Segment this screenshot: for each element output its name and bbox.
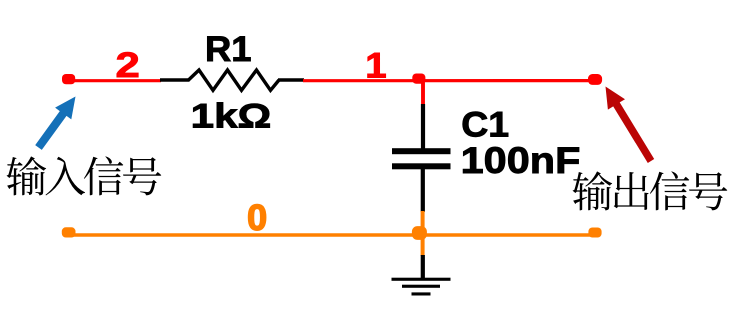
svg-text:1kΩ: 1kΩ [191,97,272,135]
svg-text:100nF: 100nF [461,140,581,181]
node: ground net junction dot [412,226,427,240]
node: left ground terminal dot [62,227,76,237]
svg-text:0: 0 [247,197,267,238]
wire: red segment from resistor through node 1 to output terminal [303,79,591,82]
wire: black lead right of resistor [278,78,304,81]
label 输入信号 (input signal) [7,156,162,195]
ground bar 2 [402,285,440,288]
node: junction dot at node 1 [412,74,425,84]
wire: black lead left of resistor [160,78,190,81]
output arrow (dark red) [606,87,655,164]
wire: black capacitor top lead [421,104,425,149]
label 输出信号 (output signal) [573,171,728,210]
input arrow (blue) [35,97,75,150]
ground bar 1 [392,278,451,281]
node: input terminal dot (net 2) [62,74,75,84]
wire: black lead to ground [421,255,425,279]
wire: orange segment through ground-net junction [421,211,425,256]
resistor R1 [189,70,280,90]
node: right ground terminal dot [588,228,601,238]
ground bar 3 [412,292,431,295]
wire: black capacitor bottom lead [421,169,425,212]
wire: orange ground net (net 0) [67,233,595,236]
svg-text:C1: C1 [461,105,509,145]
capacitor C1 top plate [392,148,451,154]
svg-text:1: 1 [365,46,386,85]
wire: red capacitor top lead [421,80,425,105]
node: output terminal dot [588,74,602,85]
capacitor C1 bottom plate [392,163,451,169]
svg-text:R1: R1 [205,30,252,69]
svg-text:2: 2 [116,46,140,85]
wire: red segment from input terminal to resistor [68,79,161,82]
